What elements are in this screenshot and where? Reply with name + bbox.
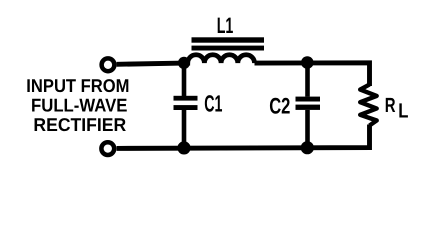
capacitor C2 top lead (305, 63, 310, 97)
capacitor C1 top plate (174, 96, 198, 101)
terminal: bottom input (open circle) (101, 142, 114, 155)
capacitor C1 bottom plate (174, 105, 198, 110)
capacitor C1 bottom lead (182, 110, 187, 148)
svg-text:C1: C1 (204, 91, 222, 117)
node: C1 top junction (178, 57, 190, 69)
svg-text:L: L (398, 100, 408, 123)
svg-text:C2: C2 (269, 93, 290, 118)
node: C2 bottom junction (301, 141, 314, 154)
terminal: top input (open circle) (102, 58, 115, 71)
svg-text:FULL-WAVE: FULL-WAVE (31, 95, 127, 116)
capacitor C1 top lead (182, 63, 187, 97)
svg-text:RECTIFIER: RECTIFIER (33, 114, 126, 135)
inductor L1 core bar upper (192, 37, 265, 42)
capacitor C2 bottom plate (296, 105, 321, 110)
svg-text:R: R (385, 94, 396, 117)
inductor L1 core bar lower (192, 46, 265, 51)
svg-text:L1: L1 (217, 13, 234, 38)
svg-text:INPUT FROM: INPUT FROM (26, 75, 129, 96)
wire: top rail left (terminal to C1 node) (117, 63, 184, 64)
capacitor C2 bottom lead (305, 110, 310, 148)
wire: top rail right (coil to top-right corner, down to resistor) (255, 63, 370, 86)
wire: resistor bottom to bottom-right corner and bottom rail (117, 125, 370, 149)
resistor RL zigzag (360, 85, 377, 126)
node: C2 top junction (301, 56, 314, 69)
capacitor C2 top plate (296, 97, 321, 102)
inductor L1 coil (184, 55, 255, 63)
node: C1 bottom junction (177, 141, 190, 154)
